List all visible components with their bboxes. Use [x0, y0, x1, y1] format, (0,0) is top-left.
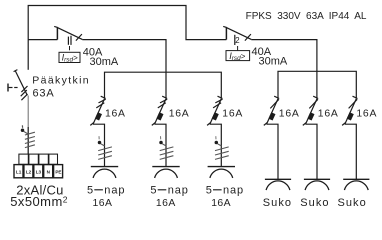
junction dot branch 2	[159, 141, 163, 145]
main switch contact tick	[14, 70, 18, 72]
breaker F2 lower contact tick	[90, 123, 93, 126]
socket X3 5-nap 16A	[206, 167, 244, 209]
svg-text:63A: 63A	[33, 88, 55, 100]
svg-text:Irsd>: Irsd>	[229, 51, 245, 62]
wire breaker F2 blade	[93, 99, 105, 125]
breaker F3	[152, 96, 190, 166]
svg-text:N: N	[47, 170, 51, 175]
cable mark branch 3	[215, 136, 229, 159]
cable mark branch 1	[98, 136, 112, 159]
wire middle feed through bus to breaker F3	[165, 72, 167, 99]
breaker F6	[303, 96, 339, 179]
wire main node to RCD F1 input	[28, 39, 57, 41]
RCD F1 contact tick	[54, 26, 57, 27]
svg-text:16A: 16A	[222, 109, 243, 120]
svg-text:PE: PE	[55, 170, 61, 175]
wire breaker F4 blade	[210, 99, 222, 125]
svg-text:Irsd>: Irsd>	[62, 53, 78, 64]
socket X6 bar	[343, 178, 369, 180]
breaker F5 thermal element	[271, 113, 274, 119]
svg-text:FPKS 330V 63A IP44 AL: FPKS 330V 63A IP44 AL	[246, 11, 367, 22]
breaker F5 contact tick	[274, 96, 279, 98]
breaker F5 lower contact tick	[264, 123, 267, 126]
RCD F1 linkage dash	[69, 46, 71, 50]
breaker F7 pole mark	[349, 99, 358, 108]
svg-text:30mA: 30mA	[90, 56, 119, 68]
wire RCD F1 output to middle bus feed drop	[82, 40, 166, 73]
svg-text:16A: 16A	[169, 109, 190, 120]
cable mark branch 1 conductor strokes	[98, 147, 112, 151]
svg-text:L3: L3	[36, 170, 42, 175]
svg-text:16A: 16A	[211, 198, 231, 208]
wire breaker F6 blade	[306, 99, 318, 125]
svg-text:Suko: Suko	[300, 197, 329, 208]
socket X3 arc	[210, 169, 233, 178]
breaker F7 thermal element	[349, 113, 352, 119]
RCD F2 blade	[226, 28, 251, 40]
svg-text:nap: nap	[168, 185, 189, 197]
breaker F7 lower contact tick	[342, 123, 345, 126]
svg-text:30mA: 30mA	[259, 56, 288, 68]
svg-text:L2: L2	[26, 170, 32, 175]
breaker F6 thermal element	[310, 113, 313, 119]
svg-text:nap: nap	[223, 185, 244, 197]
svg-text:2: 2	[235, 36, 239, 45]
socket X2 arc	[155, 169, 178, 178]
svg-text:L1: L1	[16, 170, 22, 175]
main switch pole marks	[21, 86, 27, 92]
socket X3 bar	[208, 166, 235, 168]
svg-text:16A: 16A	[156, 198, 176, 208]
svg-text:Pääkytkin: Pääkytkin	[32, 74, 90, 86]
RCD F2 trip cross	[245, 34, 251, 41]
socket X2 5-nap 16A	[150, 167, 188, 209]
RCD F2 fixed contact riser	[225, 27, 227, 39]
terminal block X1 L1 L2 L3 N PE	[14, 165, 63, 178]
RCD F2 sensing box Irsd	[226, 51, 250, 61]
breaker F2 contact tick	[101, 96, 106, 98]
RCD F2 pole mark	[234, 35, 236, 45]
socket X5 arc	[305, 181, 329, 190]
RCD F2 contact tick	[223, 26, 226, 27]
wire feed drop to main switch	[27, 40, 29, 70]
socket X5 Suko	[300, 179, 330, 209]
breaker F7 contact tick	[353, 96, 358, 98]
RCD F1 pole marks	[67, 37, 69, 45]
cable mark branch 3 conductor strokes	[215, 147, 229, 151]
breaker F7	[342, 96, 377, 179]
RCD F1 sensing box Irsd	[59, 52, 80, 62]
svg-text:5: 5	[206, 185, 212, 197]
wire breaker F2 output down	[93, 124, 105, 166]
cable mark branch 2 stub	[160, 136, 162, 139]
socket X4 arc	[266, 181, 290, 190]
cable mark branch 3 link	[217, 144, 221, 146]
svg-text:16A: 16A	[93, 198, 113, 208]
wire breaker F4 output down	[210, 124, 222, 166]
main switch Q1 Paakytkin 63A	[8, 40, 90, 101]
wire breaker F6 output down	[306, 124, 318, 179]
breaker F3 pole marks	[160, 99, 167, 103]
svg-text:5: 5	[150, 185, 156, 197]
cable mark branch 3 stub	[215, 136, 217, 139]
breaker F6 pole mark	[309, 99, 318, 108]
breaker F3 lower contact tick	[152, 123, 155, 126]
main switch handle	[7, 84, 9, 92]
breaker F4 contact tick	[218, 96, 223, 98]
svg-text:Suko: Suko	[338, 197, 367, 208]
RCD F2 40A 30mA	[223, 26, 288, 67]
RCD F1 trip cross	[76, 34, 82, 41]
terminal labels L1 L2 L3 N PE	[16, 170, 62, 175]
junction dot branch 3	[215, 141, 219, 145]
svg-text:16A: 16A	[279, 109, 300, 120]
cable mark supply conductor strokes	[25, 132, 35, 135]
RCD F1 blade	[57, 28, 82, 40]
socket X6 arc	[344, 181, 368, 190]
wire breaker F5 output down	[267, 124, 279, 179]
cable mark supply link	[24, 131, 28, 133]
cable mark branch 2 link	[162, 144, 166, 146]
breaker F4 thermal element	[214, 113, 217, 119]
RCD F2 linkage dash	[237, 46, 239, 50]
wire right bus bar	[278, 71, 356, 98]
svg-text:16A: 16A	[105, 109, 126, 120]
cable mark branch 2	[159, 136, 173, 159]
junction dot supply	[21, 128, 25, 132]
svg-text:5: 5	[87, 185, 93, 197]
breaker F4 pole marks	[215, 99, 222, 103]
wire breaker F7 output down	[345, 124, 357, 179]
svg-text:16A: 16A	[318, 109, 339, 120]
breaker F3 thermal element	[159, 113, 162, 119]
wire breaker F7 blade	[345, 99, 357, 125]
wire right feed through bus to breaker F6	[316, 71, 318, 98]
breaker F6 lower contact tick	[303, 123, 306, 126]
cable mark branch 1 link	[101, 144, 105, 146]
wire RCD F2 output to right bus feed drop	[251, 40, 317, 72]
wire breaker F3 blade	[155, 99, 167, 125]
wire breaker F3 output down	[155, 124, 167, 166]
socket X4 Suko	[263, 179, 292, 209]
junction dot branch 1	[98, 141, 102, 145]
breaker F4	[207, 96, 243, 166]
breaker F5	[264, 96, 300, 179]
cable mark branch 1 stub	[98, 136, 100, 139]
svg-text:5x50mm2: 5x50mm2	[10, 194, 68, 208]
cable mark branch 2 conductor strokes	[160, 147, 174, 151]
socket X1 arc	[93, 169, 116, 178]
main switch blade	[15, 71, 27, 96]
breaker F2 pole marks	[99, 99, 106, 103]
svg-text:nap: nap	[104, 185, 125, 197]
svg-text:Suko: Suko	[263, 197, 292, 208]
RCD F1 40A 30mA	[54, 26, 119, 67]
socket X1 5-nap 16A	[87, 167, 125, 209]
socket X5 bar	[304, 178, 330, 180]
wire middle bus bar	[105, 72, 222, 99]
breaker F2	[90, 96, 125, 166]
terminal block upper cells	[19, 154, 58, 164]
breaker F6 contact tick	[313, 96, 318, 98]
wire main switch output to terminal block	[27, 96, 29, 128]
breaker F4 lower contact tick	[207, 123, 210, 126]
breaker F3 contact tick	[162, 96, 167, 98]
RCD F1 fixed contact riser	[56, 27, 58, 39]
wire top feed loop from main node up across to right feed drop	[28, 6, 226, 40]
cable mark supply 5 conductors	[21, 125, 35, 147]
breaker F2 thermal element	[97, 113, 100, 119]
socket X6 Suko	[338, 179, 370, 209]
socket X4 bar	[265, 178, 291, 180]
socket X2 bar	[152, 166, 179, 168]
wire breaker F5 blade	[267, 99, 279, 125]
breaker F5 pole mark	[270, 99, 279, 108]
socket X1 bar	[91, 166, 118, 168]
svg-text:16A: 16A	[356, 109, 377, 120]
cable mark supply stub	[21, 125, 23, 128]
